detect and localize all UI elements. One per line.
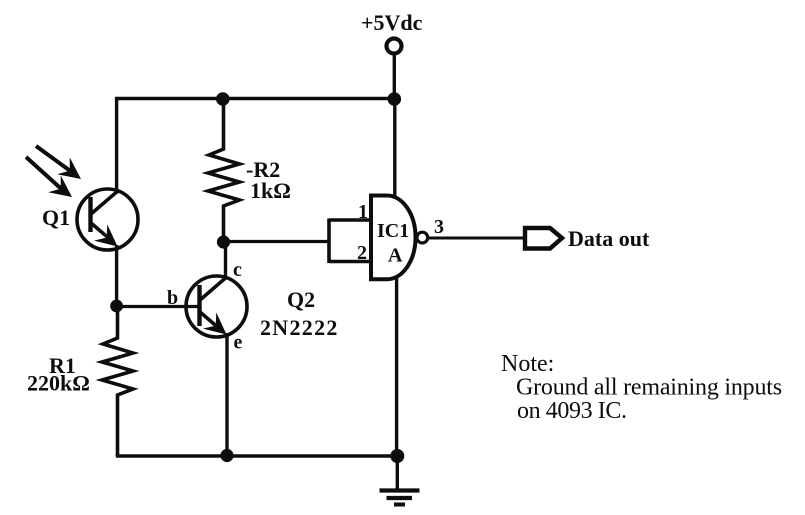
svg-text:Q2: Q2: [287, 287, 315, 312]
svg-text:on 4093 IC.: on 4093 IC.: [517, 398, 627, 424]
label IC1: [377, 220, 409, 242]
svg-text:Data out: Data out: [568, 226, 650, 251]
svg-text:IC1: IC1: [377, 220, 409, 242]
ground symbol: [380, 491, 420, 505]
label A: [388, 245, 403, 267]
data out connector: [525, 228, 562, 249]
svg-text:1kΩ: 1kΩ: [250, 178, 291, 203]
label e (Q2 emitter): [234, 332, 243, 354]
label 1k ohm: [250, 178, 291, 203]
wire: Q2 emitter down to bottom rail: [225, 333, 228, 456]
svg-text:Note:: Note:: [501, 351, 554, 377]
transistor Q1 (phototransistor): [77, 189, 138, 250]
label b (Q2 base): [167, 287, 178, 309]
label 220k ohm: [27, 371, 90, 396]
wire: +5V terminal to top rail: [393, 54, 396, 100]
wire: gate bottom down to bottom rail: [395, 278, 398, 456]
label Q2: [287, 287, 315, 312]
svg-text:3: 3: [434, 216, 444, 238]
svg-text:Ground all remaining inputs: Ground all remaining inputs: [516, 375, 782, 401]
wire: +5V node down to gate top: [393, 99, 396, 196]
wire: Q2 collector up to node: [224, 242, 227, 279]
light arrow 2: [26, 157, 72, 197]
label R1: [49, 353, 76, 378]
node: top rail / +5V junction: [388, 92, 402, 106]
wire: node to Q2 base: [117, 305, 200, 308]
resistor R1: [102, 306, 133, 456]
IC1 output bubble: [417, 232, 428, 243]
label 2N2222: [260, 315, 339, 340]
label pin 3: [434, 216, 444, 238]
node: Q1 emitter / R1 / Q2 base junction: [110, 300, 123, 313]
svg-text:2N2222: 2N2222: [260, 315, 339, 340]
NAND gate IC1 body: [371, 196, 416, 280]
node: bottom rail / ground corner: [390, 449, 404, 463]
label c (Q2 collector): [233, 259, 242, 281]
IC1 gate input bracket: [329, 219, 371, 264]
svg-text:220kΩ: 220kΩ: [27, 371, 90, 396]
label pin 2: [357, 242, 367, 264]
svg-text:b: b: [167, 287, 178, 309]
node: bottom rail / Q2 emitter junction: [220, 449, 233, 462]
svg-text:Q1: Q1: [42, 205, 70, 230]
svg-text:1: 1: [358, 201, 368, 223]
node: R2 bottom / Q2 collector / gate input junction: [217, 235, 230, 248]
svg-text:A: A: [388, 245, 403, 267]
svg-text:2: 2: [357, 242, 367, 264]
svg-text:e: e: [234, 332, 243, 354]
resistor R2: [208, 99, 240, 242]
node: top rail / R2 junction: [216, 92, 230, 106]
+5Vdc terminal: [387, 39, 402, 54]
wire: top rail down to Q1 collector: [115, 97, 118, 194]
wire: bottom rail: [116, 454, 398, 457]
light arrow 1: [36, 146, 81, 179]
wire: gate output to data-out connector: [428, 237, 524, 240]
label R2: [246, 157, 280, 182]
transistor Q2: [186, 276, 247, 337]
wire: node to gate input bracket: [224, 240, 330, 243]
svg-text:c: c: [233, 259, 242, 281]
wire: Q1 emitter down to node: [115, 245, 118, 307]
note text: [501, 351, 782, 424]
wire: top rail: [115, 97, 396, 100]
label Data out: [568, 226, 650, 251]
label Q1: [42, 205, 70, 230]
+5Vdc label: [361, 10, 423, 35]
ground stub wire: [396, 456, 399, 490]
svg-text:+5Vdc: +5Vdc: [361, 10, 423, 35]
label pin 1: [358, 201, 368, 223]
